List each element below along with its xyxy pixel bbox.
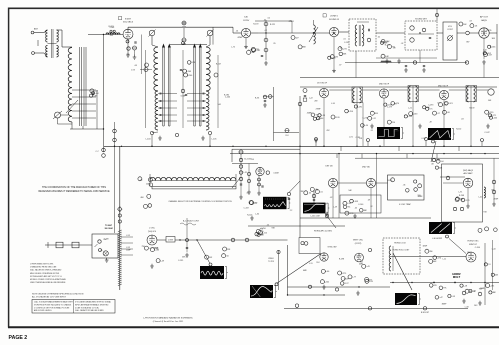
- junction sound dot 3: [355, 32, 356, 33]
- mixer components: [222, 254, 226, 258]
- capacitor C31: [466, 31, 470, 35]
- V7 components: [439, 103, 443, 107]
- right col wire: [493, 158, 495, 202]
- B plus cap a: [405, 65, 407, 66]
- ground below V1: [126, 53, 130, 57]
- junction B+ dot 3: [376, 153, 377, 154]
- svg-text:NOTES A-SHIFT AND SET VOLT P-P: NOTES A-SHIFT AND SET VOLT P-P LL: [30, 275, 62, 278]
- vert right components: [494, 228, 498, 232]
- feedthrough C9: [133, 46, 137, 50]
- IF transformer T7 can: [466, 86, 477, 102]
- svg-text:27MF: 27MF: [109, 27, 115, 29]
- svg-text:.02: .02: [343, 278, 346, 280]
- C11 stub: [183, 21, 185, 25]
- junction bus dot 1: [114, 146, 115, 147]
- bus stub 5: [425, 141, 427, 146]
- sound col a wire: [240, 154, 242, 195]
- sound col a3: [239, 171, 242, 174]
- svg-text:761: 761: [347, 207, 350, 209]
- svg-text:SYNC INV: SYNC INV: [328, 247, 338, 249]
- R31 arrow: [447, 35, 453, 41]
- svg-text:C-179: C-179: [464, 200, 469, 202]
- B plus upper run: [345, 62, 467, 64]
- T4 core a: [358, 25, 360, 46]
- L1 tap wire 4: [72, 110, 96, 112]
- mixer vertical: [186, 218, 188, 252]
- wire V3 plate: [339, 31, 349, 33]
- detector input components: [381, 54, 385, 58]
- feedthrough capacitor C11: [182, 21, 186, 25]
- ground sound chain: [264, 61, 268, 65]
- wire to coil L1 top: [62, 46, 72, 48]
- detector input components: [381, 39, 385, 43]
- video IF coil L12 a: [467, 86, 469, 102]
- boost terminal c: [423, 307, 426, 310]
- bus stub 8: [336, 154, 338, 158]
- T2 tap capacitor 1: [160, 93, 161, 95]
- T2 tap capacitor 4: [160, 114, 161, 116]
- yoke right lead: [235, 174, 237, 186]
- svg-text:R-159: R-159: [469, 108, 474, 110]
- svg-text:L-42: L-42: [483, 49, 487, 51]
- sync input components: [258, 231, 262, 235]
- ground below V4: [482, 60, 486, 64]
- junction sync dot 1: [287, 294, 288, 295]
- IF link a: [329, 89, 352, 91]
- svg-text:864: 864: [320, 118, 323, 120]
- junction bus dot 10: [379, 146, 380, 147]
- component C53: [231, 238, 235, 242]
- junction B+ dot 5: [443, 153, 444, 154]
- svg-text:.01: .01: [320, 191, 323, 193]
- bus stub 1: [315, 141, 317, 146]
- boost bus: [284, 307, 468, 309]
- svg-text:C-247: C-247: [484, 132, 489, 134]
- svg-text:USED TRACER-ALIGNED A LINE REV: USED TRACER-ALIGNED A LINE REVERSE: [30, 281, 66, 284]
- video IF coil L10 b: [360, 88, 362, 103]
- ground below T3: [201, 136, 205, 140]
- svg-text:180: 180: [467, 252, 470, 254]
- svg-text:R-291: R-291: [357, 106, 362, 108]
- svg-text:R-157: R-157: [487, 54, 492, 56]
- sync box components: [304, 242, 308, 246]
- svg-text:R-120: R-120: [334, 117, 339, 119]
- V5 components: [311, 113, 315, 117]
- osc components: [150, 248, 154, 252]
- right col b: [492, 190, 496, 194]
- svg-text:.49: .49: [339, 47, 342, 49]
- svg-text:.74: .74: [266, 225, 269, 227]
- B plus cap b: [423, 65, 425, 66]
- svg-text:L-11: L-11: [309, 263, 313, 265]
- capacitor C8: [135, 41, 136, 43]
- horiz bus b: [390, 282, 499, 284]
- L11 components: [409, 112, 413, 116]
- svg-text:C-200: C-200: [225, 97, 230, 99]
- IF transformer T2 winding lower: [155, 91, 158, 130]
- svg-text:R-250: R-250: [330, 58, 335, 60]
- capacitor C52: [186, 247, 188, 248]
- tube V12 AGC amp: [463, 178, 473, 188]
- antenna terminal 1: [31, 31, 34, 34]
- L12 components: [488, 114, 491, 117]
- T4 core b: [359, 25, 361, 46]
- svg-text:300 OHM: 300 OHM: [104, 228, 113, 230]
- sound output lower: [250, 201, 254, 205]
- tube V13 local oscillator: [147, 235, 157, 245]
- svg-text:AND SOUND LEVELS: AND SOUND LEVELS: [34, 309, 52, 312]
- sound upper drop: [291, 21, 293, 33]
- junction horiz dot 4: [454, 282, 455, 283]
- svg-text:484: 484: [140, 197, 143, 199]
- IF crossbar component: [285, 129, 289, 133]
- svg-text:L-PROVISION STANDARD RADIATION: L-PROVISION STANDARD RADIATION SCHEMATIC: [143, 317, 193, 320]
- svg-text:L-58: L-58: [465, 306, 469, 308]
- svg-text:3 ALL VALUES IN OHMS K-OHMS A: 3 ALL VALUES IN OHMS K-OHMS AND: [30, 269, 62, 272]
- sound takeoff coil L7: [314, 25, 316, 44]
- T2 top wire: [152, 45, 158, 47]
- wire R3 to coil: [61, 114, 69, 116]
- svg-text:29MF: 29MF: [316, 109, 322, 111]
- B plus drop a: [355, 51, 357, 78]
- junction bus dot 7: [299, 146, 300, 147]
- video IF coil L11 a: [409, 86, 411, 102]
- svg-text:R-250: R-250: [348, 111, 353, 113]
- ground sync a: [322, 285, 326, 289]
- pix terminal: [277, 250, 280, 253]
- V7 cathode drop: [443, 100, 445, 146]
- V9 below cap: [261, 186, 263, 187]
- svg-text:R-121: R-121: [270, 24, 275, 26]
- B+ distribution bus: [230, 153, 499, 155]
- horiz output components: [469, 289, 472, 292]
- sound det coupling: [376, 32, 405, 34]
- svg-text:L-60: L-60: [325, 271, 329, 273]
- L7 top lead: [313, 20, 315, 25]
- component right W3: [287, 192, 290, 195]
- svg-text:457: 457: [369, 279, 372, 281]
- T3 tap 3: [187, 107, 206, 109]
- svg-text:144: 144: [218, 104, 221, 106]
- sync bottom bus: [288, 294, 346, 296]
- svg-text:SOUND DET: SOUND DET: [415, 19, 428, 21]
- AGC components: [435, 166, 438, 169]
- svg-text:CONV: CONV: [243, 20, 250, 22]
- svg-text:.02: .02: [401, 43, 404, 45]
- svg-text:C-191: C-191: [344, 42, 349, 44]
- V6 components: [387, 120, 391, 124]
- svg-text:356: 356: [429, 251, 432, 253]
- border frame bottom: [8, 326, 499, 328]
- horizontal hold coil L31: [389, 246, 391, 271]
- trimmer C14: [149, 30, 155, 36]
- terminal fr b: [478, 292, 482, 296]
- bus stub 7: [481, 142, 483, 146]
- wire converter grid bus: [170, 44, 207, 46]
- sound col a4: [239, 177, 242, 180]
- svg-text:119: 119: [437, 102, 440, 104]
- T2 hairpin 2b: [169, 46, 171, 126]
- IF transformer T3 winding lower: [206, 91, 209, 130]
- border frame left: [8, 8, 10, 328]
- table divider: [73, 300, 75, 314]
- svg-text:L-30 HORIZ: L-30 HORIZ: [432, 238, 443, 240]
- svg-text:L-98: L-98: [105, 238, 109, 240]
- junction AGC c: [323, 146, 324, 147]
- V2 components: [252, 48, 256, 52]
- IF left comp a: [263, 95, 267, 99]
- svg-text:VIDEO: VIDEO: [268, 258, 274, 260]
- capacitor C7: [102, 148, 106, 152]
- svg-text:R-235: R-235: [486, 30, 491, 32]
- svg-text:R-274: R-274: [341, 49, 346, 51]
- ground L11: [418, 124, 422, 128]
- ground AGC: [466, 204, 470, 208]
- yoke baseline: [150, 180, 236, 182]
- wire bus drop mid: [212, 27, 214, 44]
- svg-text:R-298: R-298: [339, 258, 344, 260]
- audio coupling: [437, 32, 443, 34]
- grid choke L2: [106, 33, 120, 35]
- wire L1 core drop: [82, 126, 84, 129]
- junction sound dot 2: [333, 32, 334, 33]
- tube V14 sync separator: [320, 253, 328, 261]
- L11 components: [423, 106, 426, 109]
- svg-text:C-250: C-250: [261, 228, 266, 230]
- osc line terminal a: [118, 214, 121, 217]
- L1 tap components: [90, 94, 93, 97]
- svg-text:C-195: C-195: [489, 285, 494, 287]
- V9 below a: [258, 178, 261, 181]
- ground below V9: [257, 191, 261, 195]
- L1 tap components: [90, 89, 94, 93]
- svg-text:.08: .08: [134, 65, 137, 67]
- wire V1 plate bus: [128, 26, 233, 28]
- C12 cross: [182, 39, 187, 41]
- svg-text:C-127: C-127: [343, 283, 348, 285]
- L12 components: [489, 116, 492, 119]
- L10 components: [361, 124, 365, 128]
- svg-text:2.2: 2.2: [290, 210, 293, 212]
- junction bus dot 5: [232, 146, 233, 147]
- tube V8 partial: [488, 89, 494, 95]
- L1 tap wire 2: [72, 96, 96, 98]
- svg-text:(CONT): (CONT): [355, 243, 362, 245]
- svg-text:.38: .38: [431, 163, 434, 165]
- V6 components: [391, 102, 395, 106]
- svg-text:TO ANT: TO ANT: [105, 224, 113, 227]
- mixer components: [205, 255, 209, 259]
- wire V2 plate: [251, 32, 258, 34]
- svg-text:214: 214: [392, 122, 395, 124]
- AGC bus: [104, 145, 499, 147]
- feed square: [303, 98, 307, 101]
- wire V1 plate up: [127, 27, 129, 29]
- V9 cathode wire: [258, 176, 260, 191]
- volume control box: [443, 22, 457, 60]
- svg-text:2ND VID: 2ND VID: [362, 167, 370, 169]
- svg-text:.14: .14: [315, 189, 318, 191]
- trap components: [414, 188, 418, 192]
- junction B+ dot 4: [412, 153, 413, 154]
- svg-text:R-110: R-110: [456, 128, 461, 130]
- T2 tap 5: [158, 120, 177, 122]
- junction bus dot 13: [470, 146, 471, 147]
- horiz osc components: [433, 256, 437, 260]
- svg-text:RECEIVER ASSURES IT RENDERED T: RECEIVER ASSURES IT RENDERED TO SERIAL 1…: [38, 190, 109, 193]
- interstage components: [187, 61, 191, 65]
- svg-text:1 PERFORMED WITH V-THK: 1 PERFORMED WITH V-THK: [30, 264, 54, 266]
- junction AGC e: [443, 146, 444, 147]
- svg-text:L-74: L-74: [372, 118, 376, 120]
- wire L1 bottom bus: [70, 128, 104, 130]
- wire V11 drop: [370, 188, 372, 218]
- svg-text:L-30: L-30: [255, 213, 259, 215]
- yoke left components: [148, 178, 152, 182]
- ground below C9: [133, 55, 137, 59]
- svg-text:ZONE 6: ZONE 6: [330, 16, 338, 18]
- svg-text:(W4) 6AQ5: (W4) 6AQ5: [463, 169, 474, 172]
- component on top edge: [239, 150, 243, 154]
- capacitor right W3: [288, 198, 290, 199]
- svg-text:C-7: C-7: [95, 151, 98, 153]
- horiz right vertical: [484, 243, 486, 305]
- sound col b2: [247, 179, 250, 182]
- svg-text:HORIZ HOLD CONT: HORIZ HOLD CONT: [393, 250, 411, 252]
- V3 cathode components: [339, 52, 343, 56]
- tube V5 first video IF: [319, 88, 328, 97]
- svg-text:.05: .05: [246, 192, 249, 194]
- svg-text:36MF: 36MF: [442, 303, 448, 305]
- antenna feed stub: [436, 9, 438, 21]
- svg-text:L-31: L-31: [243, 172, 247, 174]
- svg-text:21MF: 21MF: [493, 198, 499, 200]
- T2 hairpin arrow 2: [168, 44, 171, 48]
- svg-text:(Channel 4) Serial B Inc. Jan: (Channel 4) Serial B Inc. Jan 1951: [153, 321, 184, 323]
- osc output wire: [157, 239, 166, 241]
- horiz right components: [484, 263, 487, 266]
- svg-text:41MF: 41MF: [394, 130, 400, 132]
- junction sound dot 4: [419, 32, 420, 33]
- bus stub 9: [361, 154, 363, 158]
- wire V10 drop: [332, 188, 334, 218]
- junction horiz dot 2: [411, 282, 412, 283]
- svg-text:269: 269: [314, 101, 317, 103]
- right feed line: [355, 157, 499, 159]
- junction L1 bottom: [103, 128, 104, 129]
- svg-text:.08: .08: [393, 48, 396, 50]
- svg-text:L-18: L-18: [463, 285, 467, 287]
- wire L1 bottom left: [58, 123, 73, 125]
- svg-text:L-67: L-67: [251, 52, 255, 54]
- mixer components: [223, 247, 227, 251]
- svg-text:(V1) 6BC5: (V1) 6BC5: [123, 22, 134, 24]
- component C54: [245, 238, 249, 242]
- svg-text:B 4BT: B 4BT: [125, 18, 132, 20]
- yoke left components: [138, 177, 142, 181]
- L12 core: [470, 86, 472, 102]
- svg-text:.02: .02: [264, 30, 267, 32]
- balun T1 winding a: [46, 30, 48, 42]
- svg-text:2ND VID IF: 2ND VID IF: [379, 84, 390, 86]
- svg-text:R-159: R-159: [253, 24, 258, 26]
- boost terminal b: [368, 307, 371, 310]
- ground B plus a: [404, 68, 408, 72]
- IF left tap: [263, 96, 274, 98]
- svg-text:R-139: R-139: [407, 116, 412, 118]
- svg-text:.02: .02: [267, 17, 270, 19]
- wire W4 top: [313, 190, 315, 203]
- ground below T2: [158, 136, 162, 140]
- T2 top lead: [151, 36, 153, 45]
- ground sound out: [250, 216, 254, 220]
- wire L1 bottom drop: [71, 122, 73, 129]
- svg-text:6SN7GT: 6SN7GT: [469, 244, 478, 246]
- screen tap wire: [140, 69, 152, 71]
- V5 components: [331, 115, 335, 119]
- junction bus dot 11: [412, 146, 413, 147]
- video amp components: [343, 205, 347, 209]
- ground L12: [486, 124, 490, 128]
- wire balun joins: [48, 43, 57, 45]
- T3 hairpin 2b: [200, 46, 202, 126]
- T3 tap capacitor 5: [203, 120, 204, 122]
- T4 primary winding: [355, 25, 357, 46]
- sync mid bus: [288, 286, 391, 288]
- junction grid wire: [103, 34, 104, 35]
- svg-text:R-107: R-107: [216, 63, 221, 65]
- channel tap 1: [121, 236, 133, 238]
- svg-text:.09: .09: [346, 278, 349, 280]
- junction sound dot 1: [313, 32, 314, 33]
- sync bus: [248, 225, 345, 227]
- svg-text:L-59: L-59: [333, 206, 337, 208]
- T3 top lead: [209, 36, 211, 45]
- capacitor C28: [422, 28, 426, 32]
- detector inner wire: [408, 33, 434, 35]
- svg-text:DET 2B: DET 2B: [326, 166, 334, 168]
- wire T3 bottom to bus: [209, 135, 211, 147]
- junction mid bus: [358, 286, 359, 287]
- tube V15 vertical oscillator: [355, 253, 364, 262]
- L1 slug arrow: [66, 100, 78, 113]
- ground sound col b: [247, 190, 251, 194]
- capacitor C18: [185, 94, 187, 95]
- trap components: [418, 184, 422, 188]
- svg-text:563: 563: [474, 305, 477, 307]
- svg-text:(V-6) 6C4: (V-6) 6C4: [148, 231, 156, 233]
- AGC grid wire: [443, 182, 463, 184]
- AGC inner b: [460, 207, 463, 210]
- svg-text:40MF: 40MF: [307, 113, 313, 115]
- svg-text:L-104: L-104: [146, 139, 151, 141]
- svg-text:5 ALL CAPACITOR VALUES IN MFD: 5 ALL CAPACITOR VALUES IN MFD: [75, 309, 104, 312]
- junction horiz dot 5: [470, 282, 471, 283]
- top edge cross: [239, 151, 244, 153]
- V6 components: [368, 116, 372, 120]
- interstage vertical: [182, 50, 184, 128]
- horiz bus a: [390, 255, 466, 257]
- svg-text:VTVM FROM POINT INDICATED TO C: VTVM FROM POINT INDICATED TO CHASSIS: [34, 303, 72, 306]
- yoke left lead: [149, 174, 151, 186]
- junction bus dot 4: [209, 146, 210, 147]
- V9 grid stopper: [266, 171, 269, 174]
- AGC lower components: [455, 198, 459, 202]
- border frame top: [8, 7, 499, 9]
- component on mid bus a: [308, 285, 311, 288]
- IF left feed vertical: [273, 87, 275, 141]
- svg-text:C-199: C-199: [383, 42, 388, 44]
